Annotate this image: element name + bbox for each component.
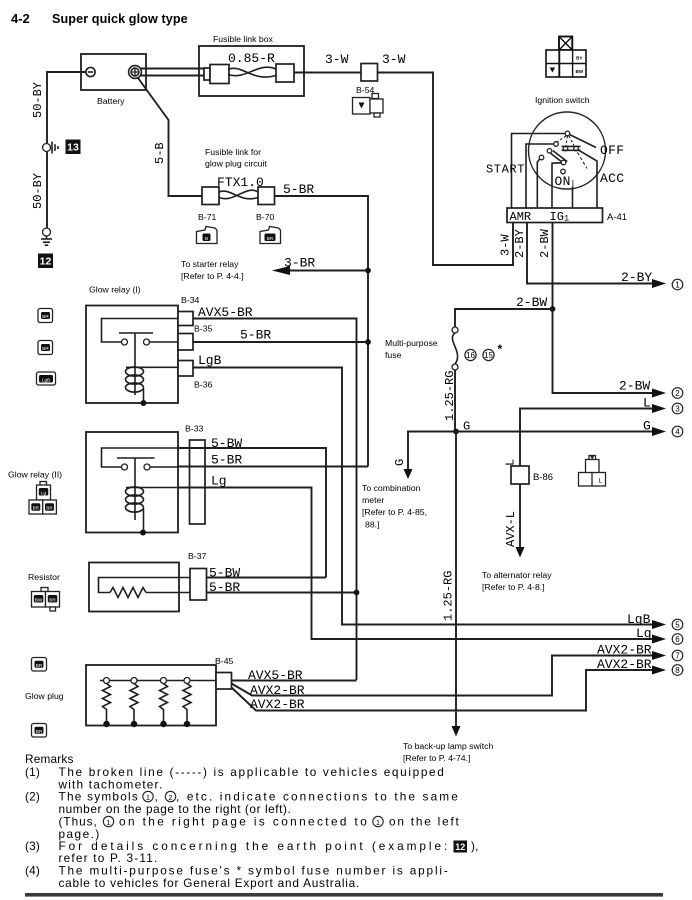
label OFF xyxy=(600,143,624,158)
connector A-41 box AMR IG1 xyxy=(507,208,627,224)
svg-text:G: G xyxy=(643,419,651,434)
wire LgB from B-36 to node 5 xyxy=(193,353,666,629)
svg-text:*: * xyxy=(498,342,503,356)
svg-text:3-W: 3-W xyxy=(382,52,406,67)
svg-text:LgB: LgB xyxy=(627,612,651,627)
svg-text:5-BR: 5-BR xyxy=(209,580,240,595)
svg-text:AVX2-BR: AVX2-BR xyxy=(250,697,305,712)
svg-text:BW: BW xyxy=(35,597,43,602)
wire 5-B battery plus to fusible link FTX xyxy=(138,78,202,196)
connector B-37 xyxy=(188,551,207,600)
wire AVX5-BR from B-34 xyxy=(193,305,357,680)
wire 2-BW to node 2 xyxy=(553,309,667,398)
svg-text:B-36: B-36 xyxy=(194,380,213,390)
svg-text:BR: BR xyxy=(42,346,49,351)
connector B-35 xyxy=(178,324,213,351)
multi-purpose fuse xyxy=(385,327,458,370)
svg-text:15: 15 xyxy=(484,351,493,360)
svg-text:BR: BR xyxy=(33,506,40,511)
svg-text:B-86: B-86 xyxy=(533,472,553,483)
wire 5-BW resistor xyxy=(207,566,327,581)
svg-text:1: 1 xyxy=(675,281,680,290)
connector B-70 face icon xyxy=(260,227,281,244)
svg-text:7: 7 xyxy=(675,652,680,661)
connector A-41 face icon grid xyxy=(546,37,586,78)
wire 2-BW to multi-purpose fuse xyxy=(455,295,553,327)
svg-text:AVX5-BR: AVX5-BR xyxy=(248,668,303,683)
node 2 xyxy=(672,388,683,399)
svg-text:Fusible link box: Fusible link box xyxy=(213,34,274,44)
pivot dashed rays xyxy=(558,136,575,146)
svg-text:5-BR: 5-BR xyxy=(283,182,314,197)
earth point 13 xyxy=(66,140,81,155)
contact G and wire to pin5 xyxy=(561,169,573,208)
svg-text:Lg: Lg xyxy=(211,474,227,489)
glow plug 2 xyxy=(130,678,138,728)
relay II contact wire xyxy=(150,466,178,468)
contact C and wire to pin3 xyxy=(537,155,544,208)
svg-text:16: 16 xyxy=(466,351,475,360)
svg-text:5-B: 5-B xyxy=(153,142,167,164)
ignition switch label xyxy=(535,95,590,105)
svg-text:4-2: 4-2 xyxy=(11,11,30,26)
connector B-54 xyxy=(356,64,378,96)
contact F and wire to pin4 xyxy=(552,160,566,208)
wire 2-BY from AMR to node 1 xyxy=(513,223,666,289)
connector icon LgB xyxy=(37,372,56,385)
svg-text:cable to vehicles for General: cable to vehicles for General Export and… xyxy=(59,876,360,890)
relay I armature xyxy=(119,333,153,395)
svg-text:Super quick glow type: Super quick glow type xyxy=(52,12,188,26)
wire 3-BR to starter relay xyxy=(181,256,368,282)
svg-text:2-BY: 2-BY xyxy=(513,229,527,258)
svg-text:B-45: B-45 xyxy=(215,656,234,666)
svg-text:OFF: OFF xyxy=(600,143,624,158)
fusible link FTX1.0 element xyxy=(198,187,275,222)
svg-text:2-BW: 2-BW xyxy=(516,295,547,310)
svg-text:AVX5-BR: AVX5-BR xyxy=(198,305,253,320)
connector icon BR c xyxy=(32,658,47,672)
svg-text:4: 4 xyxy=(675,428,680,437)
svg-text:BR: BR xyxy=(42,314,49,319)
svg-text:5-BR: 5-BR xyxy=(240,328,271,343)
svg-text:5-BR: 5-BR xyxy=(211,453,242,468)
glow plug bus wire xyxy=(100,680,216,682)
connector icon BR b xyxy=(38,341,53,355)
svg-text:G: G xyxy=(393,459,407,466)
relay II armature xyxy=(117,458,155,520)
svg-text:FTX1.0: FTX1.0 xyxy=(217,175,264,190)
glow relay II box xyxy=(86,432,178,533)
node relay I coil ground xyxy=(141,400,147,406)
svg-text:Lg: Lg xyxy=(41,490,47,495)
fuse number 15 xyxy=(483,349,494,360)
svg-text:Multi-purpose: Multi-purpose xyxy=(385,338,438,348)
wire battery minus to 50-BY xyxy=(47,72,86,228)
fusible link box xyxy=(199,34,304,96)
glow relay II label xyxy=(8,470,62,480)
wire 5-BR relay II xyxy=(178,453,368,468)
node 4 xyxy=(672,426,683,437)
fusible link 0.85-R element xyxy=(204,64,294,84)
earth point 12 xyxy=(38,254,53,269)
svg-text:IG: IG xyxy=(550,210,564,224)
wire 3-W pin below AMR xyxy=(499,234,513,256)
remark 1 xyxy=(25,765,444,792)
relay I contact right xyxy=(144,339,150,345)
connector B-86 xyxy=(511,466,553,484)
svg-text:To alternator relay: To alternator relay xyxy=(482,570,552,580)
label ON xyxy=(554,174,573,189)
label L rotated xyxy=(504,459,518,466)
label ACC xyxy=(600,171,624,186)
resistor R internal xyxy=(99,578,191,598)
svg-text:B-37: B-37 xyxy=(188,551,207,561)
svg-text:L: L xyxy=(504,459,518,466)
svg-text:B-70: B-70 xyxy=(256,212,275,222)
svg-text:3: 3 xyxy=(675,405,680,414)
svg-text:3-BR: 3-BR xyxy=(284,256,315,271)
svg-text:2: 2 xyxy=(168,793,172,802)
connector icon BR d xyxy=(32,724,47,738)
svg-text:meter: meter xyxy=(362,495,384,505)
svg-text:Ignition switch: Ignition switch xyxy=(535,95,590,105)
wire battery plus double line to fusible link box xyxy=(140,69,208,76)
wire G to node 4 xyxy=(456,419,666,437)
svg-text:12: 12 xyxy=(455,842,465,852)
svg-text:[Refer to P. 4-74.]: [Refer to P. 4-74.] xyxy=(403,753,470,763)
svg-text:LgB: LgB xyxy=(198,353,222,368)
svg-text:A-41: A-41 xyxy=(607,212,627,223)
wire AVX5-BR glow plug xyxy=(232,668,357,683)
svg-text:3-W: 3-W xyxy=(325,52,349,67)
svg-text:2: 2 xyxy=(675,389,680,398)
svg-text:ACC: ACC xyxy=(600,171,624,186)
svg-text:BW: BW xyxy=(575,69,583,74)
svg-text:BR: BR xyxy=(49,597,56,602)
svg-text:8: 8 xyxy=(675,666,680,675)
label 50-BY lower xyxy=(31,173,45,209)
wire 3-W B-54 to ignition switch AMR pin xyxy=(378,52,514,265)
relay I coil xyxy=(126,367,179,403)
wire 5-BR from B-35 xyxy=(193,328,368,343)
svg-text:),: ), xyxy=(471,839,479,853)
node G junction xyxy=(453,420,470,435)
label 50-BY upper xyxy=(31,82,45,118)
node 5 xyxy=(672,619,683,630)
contact B with moving bar xyxy=(547,149,567,165)
connector B-34 xyxy=(178,295,200,326)
svg-text:START: START xyxy=(486,163,525,177)
connector B-86 face icon xyxy=(579,456,606,487)
svg-text:To combination: To combination xyxy=(362,483,421,493)
svg-text:AVX2-BR: AVX2-BR xyxy=(597,643,652,658)
wire 5-BR resistor to junction xyxy=(207,580,357,595)
dashed ACC ray xyxy=(578,153,588,169)
relay II internal wire to contact xyxy=(102,448,179,467)
svg-text:5-BW: 5-BW xyxy=(211,436,242,451)
node 6 xyxy=(672,634,683,645)
svg-text:To back-up lamp switch: To back-up lamp switch xyxy=(403,741,493,751)
svg-text:AVX-L: AVX-L xyxy=(504,511,518,547)
svg-text:fuse: fuse xyxy=(385,350,402,360)
glow plug 3 xyxy=(160,678,168,728)
connector B-36 xyxy=(178,361,213,390)
asterisk xyxy=(498,342,503,356)
node relay II coil ground xyxy=(140,530,146,536)
svg-text:2-BW: 2-BW xyxy=(619,379,650,394)
svg-text:Battery: Battery xyxy=(97,96,125,106)
svg-text:1: 1 xyxy=(564,214,569,224)
svg-text:(3): (3) xyxy=(25,839,40,853)
svg-text:B-71: B-71 xyxy=(198,212,217,222)
wire 1.25-RG to back-up lamp switch xyxy=(403,432,493,764)
bottom rule xyxy=(25,893,663,897)
svg-text:BR: BR xyxy=(46,506,53,511)
svg-text:50-BY: 50-BY xyxy=(31,173,45,209)
svg-text:(1): (1) xyxy=(25,765,40,779)
svg-text:5-BW: 5-BW xyxy=(209,566,240,581)
svg-text:on the right page is connected: on the right page is connected to xyxy=(119,815,367,829)
svg-text:0.85-R: 0.85-R xyxy=(228,51,275,66)
node 1 xyxy=(672,279,683,290)
remark 2 xyxy=(25,790,460,842)
wire 3-W fusible box to B-54 xyxy=(294,52,361,73)
node resistor junction xyxy=(354,590,360,596)
svg-text:glow plug circuit: glow plug circuit xyxy=(205,159,267,169)
wire AVX-L to alternator relay xyxy=(482,484,552,592)
svg-text:B-35: B-35 xyxy=(194,324,213,334)
node 5-BR to relay I xyxy=(365,339,371,345)
svg-text:2-BY: 2-BY xyxy=(621,270,652,285)
wire L to node 3 xyxy=(520,396,666,467)
svg-text:B-34: B-34 xyxy=(181,295,200,305)
svg-text:L: L xyxy=(643,396,651,411)
wire G to combination meter xyxy=(362,432,456,530)
node 3-BR tap xyxy=(365,268,371,274)
ACC pin wire xyxy=(579,150,597,208)
glow plug label xyxy=(25,691,64,701)
svg-text:1: 1 xyxy=(146,793,150,802)
wire AVX2-BR to node 8 xyxy=(232,657,667,712)
resistor label xyxy=(28,572,60,582)
svg-text:2-BW: 2-BW xyxy=(538,228,552,258)
node 7 xyxy=(672,650,683,661)
glow plug 1 xyxy=(103,678,111,728)
ignition switch circle xyxy=(529,112,606,189)
battery xyxy=(81,54,146,106)
glow plug box xyxy=(86,665,216,726)
svg-text:88.]: 88.] xyxy=(365,520,380,530)
svg-text:Lg: Lg xyxy=(636,626,652,641)
fuse number 16 xyxy=(465,349,476,360)
svg-text:Glow relay (II): Glow relay (II) xyxy=(8,470,62,480)
resistor box xyxy=(89,563,179,612)
ground bottom xyxy=(41,228,52,245)
svg-text:AVX2-BR: AVX2-BR xyxy=(250,683,305,698)
svg-text:AVX2-BR: AVX2-BR xyxy=(597,657,652,672)
svg-text:13: 13 xyxy=(67,142,79,154)
svg-text:BR: BR xyxy=(36,663,43,668)
svg-text:[Refer to P. 4-4.]: [Refer to P. 4-4.] xyxy=(181,271,244,281)
connector B-45 xyxy=(215,656,234,689)
glow relay I label xyxy=(89,285,141,295)
svg-text:6: 6 xyxy=(675,635,680,644)
connector icon BR a xyxy=(38,309,53,323)
svg-text:LgB: LgB xyxy=(42,377,50,382)
ignition OFF arm xyxy=(570,135,597,148)
svg-text:1: 1 xyxy=(106,818,110,827)
glow relay II face icon xyxy=(29,482,56,515)
ground tap mid xyxy=(43,142,59,154)
connector B-54 face icon xyxy=(353,94,384,118)
relay I contact left xyxy=(122,339,128,345)
svg-text:BY: BY xyxy=(576,56,582,61)
connector B-71 face icon xyxy=(197,227,218,244)
svg-text:Resistor: Resistor xyxy=(28,572,60,582)
svg-text:To starter relay: To starter relay xyxy=(181,259,239,269)
svg-text:1: 1 xyxy=(376,818,380,827)
remarks heading xyxy=(25,752,74,766)
contact A and wire to pin2 xyxy=(526,142,558,208)
title xyxy=(11,11,188,26)
svg-text:1.25-RG: 1.25-RG xyxy=(443,371,457,421)
relay II contact right xyxy=(144,464,150,470)
svg-text:BR: BR xyxy=(36,729,43,734)
contact D E with bar xyxy=(562,146,581,151)
svg-text:12: 12 xyxy=(40,256,52,268)
svg-text:AMR: AMR xyxy=(510,210,532,224)
svg-text:3-W: 3-W xyxy=(499,234,513,256)
wire AVX2-BR to node 7 xyxy=(232,643,667,699)
relay II contact left xyxy=(122,464,128,470)
relay II coil xyxy=(126,487,179,533)
svg-text:ON: ON xyxy=(555,174,571,189)
label START xyxy=(486,163,525,177)
svg-text:Fusible link for: Fusible link for xyxy=(205,147,261,157)
svg-text:Remarks: Remarks xyxy=(25,752,74,766)
wire 1.25-RG fuse to G node xyxy=(443,370,457,432)
wire 5-BW relay II to resistor xyxy=(178,436,326,578)
node 3 xyxy=(672,403,683,414)
remark 3 xyxy=(25,839,479,865)
glow plug 4 xyxy=(183,678,191,728)
connector B-33 xyxy=(185,424,205,525)
wire 5-BR FTX to junction xyxy=(275,182,369,467)
resistor face icon xyxy=(32,588,60,612)
node junction 2-BW xyxy=(550,306,556,312)
svg-text:BR: BR xyxy=(267,236,274,241)
relay I internal wire B-34 to contact xyxy=(102,319,179,343)
relay I contact wire to B-35 xyxy=(150,341,179,343)
svg-text:[Refer to P. 4-85,: [Refer to P. 4-85, xyxy=(362,507,427,517)
svg-text:B: B xyxy=(205,236,208,241)
svg-text:1.25-RG: 1.25-RG xyxy=(442,571,456,621)
wire 2-BW from AMR down xyxy=(538,223,553,310)
svg-text:Glow plug: Glow plug xyxy=(25,691,64,701)
node 8 xyxy=(672,665,683,676)
svg-text:5: 5 xyxy=(675,621,680,630)
svg-text:[Refer to P. 4-8.]: [Refer to P. 4-8.] xyxy=(482,582,545,592)
svg-text:(2): (2) xyxy=(25,790,40,804)
svg-text:50-BY: 50-BY xyxy=(31,82,45,118)
wire START pin to pivot xyxy=(512,134,566,209)
ignition switch pivot xyxy=(565,131,570,136)
wire Lg relay II to node 6 xyxy=(178,474,666,644)
fusible link for glow plug circuit label xyxy=(205,147,267,190)
svg-text:B-33: B-33 xyxy=(185,424,204,434)
glow relay I box xyxy=(86,306,178,404)
svg-text:Glow relay (I): Glow relay (I) xyxy=(89,285,141,295)
svg-text:(4): (4) xyxy=(25,864,40,878)
remark 4 xyxy=(25,864,448,891)
